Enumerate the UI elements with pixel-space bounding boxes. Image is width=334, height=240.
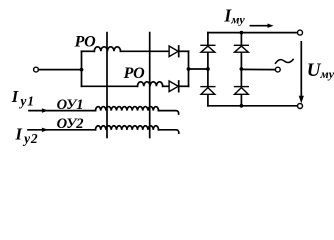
wire diode1 to connector [179, 50, 189, 52]
output terminal bottom [298, 104, 303, 109]
wire diode2 to connector [179, 85, 189, 87]
diode VD5 bridge right top [235, 45, 249, 52]
wire output connector vertical [188, 51, 190, 86]
diode VD6 bridge right bottom [235, 87, 249, 95]
winding PO1 (working winding, core 1) [94, 47, 120, 52]
arrow Imu [250, 25, 268, 27]
AC terminal [275, 67, 280, 72]
diode VD1 [169, 46, 178, 57]
diode VD2 [169, 81, 178, 92]
bridge left column [207, 33, 209, 106]
wire AC source [241, 68, 275, 70]
svg-text:РО: РО [74, 34, 97, 51]
core 1 [106, 33, 108, 138]
core 2 [149, 33, 151, 138]
svg-text:ОУ2: ОУ2 [57, 116, 84, 132]
control winding OU2 wire left with arrow Iy2 [28, 129, 96, 131]
AC tilde symbol [276, 59, 294, 63]
node input junction [80, 68, 84, 72]
wire OU2 right end [159, 130, 179, 133]
node output junction [187, 67, 191, 71]
bridge right column [240, 33, 242, 106]
wire bottom branch left [82, 85, 138, 87]
node bridge left mid [206, 67, 210, 71]
node top rail junction [240, 31, 244, 35]
control winding OU1 wire left with arrow Iy1 [29, 110, 96, 112]
diode VD3 bridge left top [201, 45, 215, 52]
output terminal top [298, 30, 303, 35]
diode VD4 bridge left bottom [201, 87, 215, 95]
wire OU1 right end [159, 111, 179, 114]
wire junction vertical [81, 51, 83, 86]
wire top branch right [121, 50, 170, 52]
winding PO2 (working winding, core 2) [138, 82, 163, 87]
wire bottom rail [208, 105, 297, 107]
wire bottom branch right [163, 85, 169, 87]
winding OU2 [96, 126, 159, 130]
input terminal [34, 67, 39, 72]
wire top branch left [82, 50, 95, 52]
winding OU1 [96, 107, 159, 111]
wire top rail [208, 32, 297, 34]
node bridge right mid [240, 67, 244, 71]
svg-text:ОУ1: ОУ1 [57, 97, 84, 113]
node bottom rail junction [240, 104, 244, 108]
arrow Umu [300, 42, 302, 96]
svg-text:РО: РО [123, 65, 146, 82]
wire input to junction [39, 69, 82, 71]
wire to bridge [189, 68, 208, 70]
